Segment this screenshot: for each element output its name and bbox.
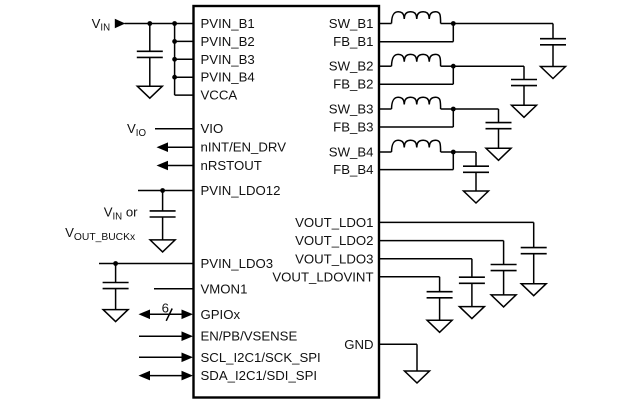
svg-text:VOUT_LDO1: VOUT_LDO1 (295, 215, 373, 230)
inductor L4 (392, 140, 441, 152)
wire VIN to PVIN_B1 (125, 23, 194, 25)
wire FB_B3 return (379, 126, 453, 128)
svg-text:VIN or: VIN or (104, 205, 138, 223)
wire bus to PVIN_B3 (175, 58, 194, 60)
wire FB_B1 return (379, 41, 453, 43)
node VOUT_B4 (451, 150, 456, 155)
svg-text:VIN: VIN (92, 16, 110, 34)
wire inductor to node B3 (441, 108, 454, 110)
ground (buck 2 output cap) (512, 105, 537, 117)
capacitor (PVIN_LDO3 bypass) (103, 283, 129, 289)
capacitor (PVIN_LDO12 bypass) (150, 211, 176, 217)
capacitor C4 (buck 4 output) (463, 166, 489, 172)
inductor L3 (392, 97, 441, 109)
svg-text:SDA_I2C1/SDI_SPI: SDA_I2C1/SDI_SPI (201, 368, 318, 383)
wire cap C1 to ground (552, 45, 554, 67)
arrowhead nINT/EN_DRV (out) (157, 142, 169, 152)
wire GND down (416, 344, 418, 371)
wire SW_B4 to inductor (379, 151, 392, 153)
wire cap to ground (439, 298, 441, 321)
wire PVIN bus vertical (174, 24, 176, 96)
wire down to cap C2 (523, 66, 525, 79)
arrowhead GPIOx right (182, 310, 194, 320)
node VOUT_B3 (451, 107, 456, 112)
arrowhead GPIOx left (139, 310, 151, 320)
bus slash (166, 309, 172, 321)
wire VIO (155, 128, 194, 130)
svg-text:PVIN_B1: PVIN_B1 (201, 16, 255, 31)
junction PVIN_LDO3 cap (113, 261, 118, 266)
capacitor C3 (buck 3 output) (486, 123, 512, 129)
svg-text:nRSTOUT: nRSTOUT (201, 158, 262, 173)
ground (VOUT_LDO1 cap) (521, 284, 546, 296)
wire cap to ground (471, 283, 473, 306)
wire down to VOUT_LDO3 cap (471, 259, 473, 277)
arrowhead EN/PB/VSENSE (182, 331, 194, 341)
svg-text:EN/PB/VSENSE: EN/PB/VSENSE (201, 329, 298, 344)
svg-text:FB_B4: FB_B4 (333, 162, 373, 177)
wire PVIN_LDO3 (99, 263, 194, 265)
svg-text:VOUT_LDO3: VOUT_LDO3 (295, 251, 373, 266)
wire VMON1 (154, 288, 194, 290)
wire FB_B2 return (379, 83, 453, 85)
ground (buck 3 output cap) (486, 148, 511, 160)
junction PVIN_LDO12 cap (160, 188, 165, 193)
svg-text:PVIN_LDO3: PVIN_LDO3 (201, 256, 274, 271)
svg-text:6: 6 (162, 300, 169, 315)
junction VIN bus (172, 21, 177, 26)
arrowhead nRSTOUT (out) (157, 161, 169, 171)
capacitor (VOUT_LDO2 output) (491, 265, 517, 271)
wire cap C4 to ground (475, 172, 477, 191)
wire cap to ground (115, 289, 117, 310)
svg-text:SCL_I2C1/SCK_SPI: SCL_I2C1/SCK_SPI (201, 350, 321, 365)
wire feedback B2 vertical (452, 66, 454, 84)
svg-text:SW_B3: SW_B3 (329, 102, 374, 117)
svg-text:PVIN_B3: PVIN_B3 (201, 52, 255, 67)
svg-text:VOUT_BUCKx: VOUT_BUCKx (65, 225, 136, 243)
wire to LDO12 cap (162, 191, 164, 211)
wire down to VOUT_LDO1 cap (533, 222, 535, 247)
wire cap C2 to ground (523, 86, 525, 106)
wire bus to VCCA (175, 94, 194, 96)
arrowhead SDA left (139, 371, 151, 381)
junction bus PVIN_B4 (172, 75, 177, 80)
ground (PVIN_LDO3 cap) (103, 310, 128, 322)
wire VOUT_LDO3 (379, 258, 472, 260)
wire node to output cap C2 (453, 65, 524, 67)
svg-text:VOUT_LDOVINT: VOUT_LDOVINT (272, 269, 373, 284)
svg-text:PVIN_B2: PVIN_B2 (201, 34, 255, 49)
svg-text:SW_B4: SW_B4 (329, 145, 374, 160)
wire nINT/EN_DRV (167, 146, 194, 148)
svg-text:VIO: VIO (201, 121, 224, 136)
inductor L1 (392, 12, 441, 24)
svg-text:VOUT_LDO2: VOUT_LDO2 (295, 233, 373, 248)
IC U1 (PMIC body) (194, 6, 380, 398)
svg-text:SW_B1: SW_B1 (329, 16, 374, 31)
wire cap to ground (149, 57, 151, 86)
ground (VOUT_LDO2 cap) (491, 295, 516, 307)
junction VIN cap branch (147, 21, 152, 26)
capacitor (VOUT_LDO3 output) (459, 277, 485, 283)
svg-text:SW_B2: SW_B2 (329, 59, 374, 74)
wire SW_B3 to inductor (379, 108, 392, 110)
ground (buck 4 output cap) (464, 191, 489, 203)
ground (VIN input cap) (137, 86, 162, 98)
wire feedback B1 vertical (452, 24, 454, 42)
svg-text:FB_B1: FB_B1 (333, 34, 373, 49)
wire nRSTOUT (167, 165, 194, 167)
wire down to VOUT_LDOVINT cap (439, 277, 441, 292)
svg-text:FB_B2: FB_B2 (333, 77, 373, 92)
wire feedback B3 vertical (452, 109, 454, 127)
wire GND (379, 343, 417, 345)
wire bus to PVIN_B4 (175, 76, 194, 78)
svg-text:nINT/EN_DRV: nINT/EN_DRV (201, 140, 287, 155)
wire VOUT_LDO2 (379, 240, 504, 242)
wire cap to ground (503, 271, 505, 295)
wire down to cap C1 (552, 24, 554, 39)
svg-text:VMON1: VMON1 (201, 281, 248, 296)
wire node to output cap C1 (453, 23, 553, 25)
svg-text:GPIOx: GPIOx (201, 307, 241, 322)
node VOUT_B2 (451, 64, 456, 69)
capacitor CIN (VIN input) (137, 51, 163, 57)
wire feedback B4 vertical (452, 152, 454, 170)
wire cap C3 to ground (498, 129, 500, 149)
ground (VOUT_LDO3 cap) (459, 307, 484, 319)
svg-text:VCCA: VCCA (201, 88, 238, 103)
wire cap to ground (533, 254, 535, 284)
capacitor C2 (buck 2 output) (511, 80, 537, 86)
wire VOUT_LDO1 (379, 221, 534, 223)
wire PVIN_LDO12 (138, 190, 194, 192)
capacitor (VOUT_LDOVINT output) (427, 292, 453, 298)
junction bus PVIN_B3 (172, 57, 177, 62)
wire to input cap (149, 24, 151, 52)
ground (GND pin) (405, 371, 430, 383)
ground (VOUT_LDOVINT cap) (427, 320, 452, 332)
wire node to output cap C3 (453, 108, 498, 110)
wire SW_B1 to inductor (379, 23, 392, 25)
ground (buck 1 output cap) (541, 67, 566, 79)
ground (PVIN_LDO12 cap) (150, 240, 175, 252)
wire SCL_I2C1/SCK_SPI (139, 356, 185, 358)
capacitor (VOUT_LDO1 output) (521, 248, 547, 254)
wire SDA_I2C1/SDI_SPI (149, 375, 185, 377)
wire down to cap C3 (498, 109, 500, 123)
wire VOUT_LDOVINT (379, 276, 440, 278)
svg-text:FB_B3: FB_B3 (333, 120, 373, 135)
capacitor C1 (buck 1 output) (540, 39, 566, 45)
wire inductor to node B1 (441, 23, 454, 25)
wire FB_B4 return (379, 169, 453, 171)
svg-text:PVIN_LDO12: PVIN_LDO12 (201, 183, 281, 198)
wire EN/PB/VSENSE (139, 335, 185, 337)
svg-text:GND: GND (344, 337, 373, 352)
arrowhead SCL_I2C1/SCK_SPI (182, 353, 194, 363)
wire inductor to node B4 (441, 151, 454, 153)
wire GPIOx (149, 313, 185, 315)
svg-text:PVIN_B4: PVIN_B4 (201, 70, 255, 85)
wire down to cap C4 (475, 152, 477, 166)
arrowhead SDA right (182, 371, 194, 381)
wire SW_B2 to inductor (379, 65, 392, 67)
wire node to output cap C4 (453, 151, 476, 153)
wire down to VOUT_LDO2 cap (503, 241, 505, 265)
node VOUT_B1 (451, 21, 456, 26)
wire bus to PVIN_B2 (175, 40, 194, 42)
input arrow VIN (115, 19, 126, 29)
svg-text:VIO: VIO (127, 121, 146, 139)
inductor L2 (392, 54, 441, 66)
wire cap to ground (162, 217, 164, 240)
wire inductor to node B2 (441, 65, 454, 67)
junction bus PVIN_B2 (172, 39, 177, 44)
wire to LDO3 cap (115, 264, 117, 283)
